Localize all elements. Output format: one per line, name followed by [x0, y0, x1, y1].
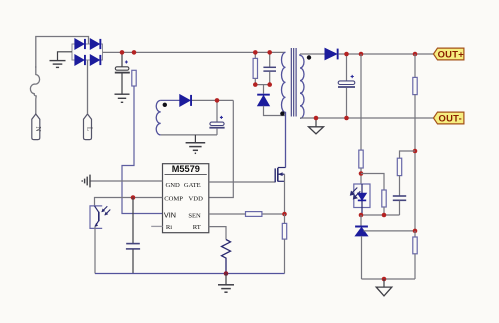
op-amp U1 M5579 controller	[163, 164, 209, 233]
junction dots output	[344, 52, 349, 57]
wire aux bottom	[161, 134, 217, 136]
wire feedback riser	[360, 54, 362, 150]
capacitor C5 comp	[126, 198, 140, 274]
junction dot SEN node	[282, 212, 287, 217]
wire cathode node line	[361, 214, 400, 216]
wire snubber node	[255, 85, 269, 94]
resistor R6 sense	[282, 214, 286, 274]
svg-text:GND: GND	[165, 182, 180, 189]
bridge rectifier BR1	[72, 39, 103, 65]
transformer T1 secondary winding	[300, 54, 304, 118]
junction dots HV rail	[120, 50, 125, 55]
svg-text:L: L	[86, 127, 95, 132]
phase dot secondary	[307, 55, 311, 59]
wire Ri stub	[151, 225, 162, 227]
transistor Q2 optocoupler phototransistor	[90, 206, 110, 229]
tag OUT+	[434, 48, 465, 60]
diode D5 optocoupler LED	[351, 184, 371, 215]
wire SEN pin	[209, 213, 285, 215]
junction dot ref node	[413, 229, 418, 234]
phase dot aux	[163, 103, 167, 107]
wire input top corner	[36, 37, 89, 69]
tag OUT-	[434, 112, 464, 124]
junction dots cathode node	[359, 213, 364, 218]
inductor L1 aux winding	[156, 100, 161, 134]
junction dot aux vdd node	[215, 98, 220, 103]
svg-text:RT: RT	[193, 224, 201, 231]
svg-text:SEN: SEN	[188, 213, 201, 220]
wire COMP pin	[95, 198, 163, 206]
resistor R3 divider upper	[413, 54, 417, 231]
transformer T1 core	[291, 48, 296, 117]
junction dot opto anode node	[359, 171, 364, 176]
ground G2 earth	[115, 94, 130, 102]
resistor R9	[382, 190, 386, 215]
junction dot ground rail	[382, 277, 387, 282]
resistor R2 snubber	[253, 52, 257, 84]
wire L to bridge	[87, 60, 89, 114]
svg-text:VDD: VDD	[189, 196, 204, 203]
capacitor C4 output	[338, 54, 355, 118]
wire secondary top	[300, 53, 325, 55]
wire GATE pin to mosfet	[209, 181, 275, 183]
resistor R7 RT zigzag	[222, 240, 231, 274]
capacitor C2 snubber	[263, 52, 276, 84]
wire branch to R9	[361, 174, 384, 191]
wire primary bottom rail	[95, 273, 285, 275]
wire to TL431	[360, 215, 362, 226]
wire VDD riser	[209, 100, 234, 197]
svg-text:OUT-: OUT-	[439, 113, 463, 124]
junction dot bottom rail	[224, 271, 229, 276]
svg-text:OUT+: OUT+	[438, 49, 465, 60]
transformer T1 primary winding	[282, 52, 286, 167]
diode D3 clamp	[257, 94, 285, 116]
fuse F1	[30, 66, 39, 114]
junction dots snubber	[253, 50, 258, 55]
ground G5 signal	[82, 175, 90, 188]
wire bridge to ground	[58, 52, 73, 61]
svg-text:Ri: Ri	[166, 224, 172, 231]
wire aux top	[161, 99, 180, 101]
wire GND pin to ground	[90, 180, 163, 182]
wire to opto anode	[360, 168, 362, 184]
capacitor C6 comp	[393, 196, 406, 215]
regulator U2 TL431	[355, 227, 415, 280]
wire secondary ground rail	[362, 278, 416, 280]
phase dot primary	[280, 111, 284, 115]
ground G7 secondary	[376, 279, 392, 296]
svg-text:COMP: COMP	[164, 196, 183, 203]
svg-text:N: N	[34, 126, 43, 132]
resistor R5 sense filter	[246, 212, 262, 217]
diode D2 aux rectifier	[180, 95, 192, 106]
terminal N	[32, 114, 43, 140]
resistor R8 led series	[359, 150, 363, 168]
resistor R4 divider lower	[413, 231, 417, 279]
svg-text:GATE: GATE	[184, 182, 201, 189]
wire main HV rail	[103, 51, 286, 53]
ground G6 earth primary	[218, 274, 234, 293]
svg-text:M5579: M5579	[172, 164, 200, 174]
capacitor C1 bulk	[115, 52, 130, 93]
terminal L	[84, 114, 95, 140]
wire aux node to riser	[192, 99, 233, 101]
resistor R1 startup	[122, 70, 163, 213]
ground G4 secondary	[309, 118, 324, 134]
wire mosfet source	[284, 174, 286, 214]
ground G3 earth aux	[186, 135, 206, 153]
transistor Q1 mosfet	[275, 168, 285, 183]
wire opto emitter to rail	[94, 227, 96, 274]
capacitor C3 vdd	[209, 100, 224, 134]
diode D4 output rectifier	[325, 48, 339, 59]
wire OUT- rail	[300, 117, 434, 119]
wire RT pin	[209, 227, 226, 240]
wire comp branch	[400, 151, 416, 158]
ground G1 earth	[50, 61, 66, 68]
wire OUT+ rail	[339, 53, 434, 55]
junction dot COMP node	[131, 195, 136, 200]
svg-text:VIN: VIN	[164, 211, 176, 220]
junction dot comp branch	[413, 149, 418, 154]
resistor R10 comp	[397, 158, 401, 195]
